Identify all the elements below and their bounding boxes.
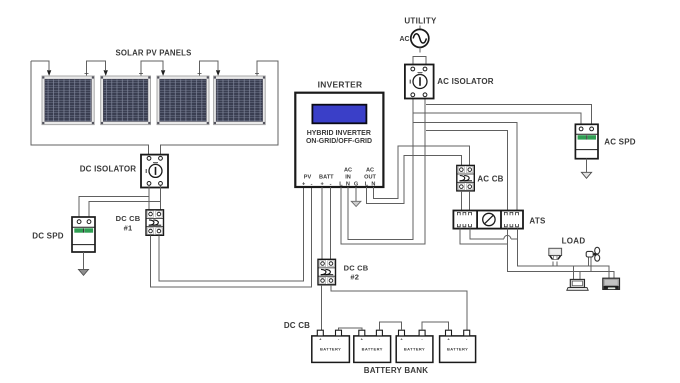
svg-text:AC: AC	[366, 168, 374, 174]
svg-text:AC ISOLATOR: AC ISOLATOR	[437, 77, 494, 86]
svg-text:DC CB: DC CB	[344, 263, 369, 272]
svg-text:BATTERY: BATTERY	[320, 347, 341, 352]
svg-text:ON-GRID/OFF-GRID: ON-GRID/OFF-GRID	[306, 138, 372, 145]
svg-text:UTILITY: UTILITY	[404, 16, 437, 25]
svg-text:BATTERY BANK: BATTERY BANK	[364, 366, 428, 375]
svg-text:#2: #2	[350, 273, 359, 282]
svg-text:BATTERY: BATTERY	[447, 347, 468, 352]
svg-text:#1: #1	[124, 223, 133, 232]
svg-text:G: G	[354, 181, 358, 187]
svg-text:DC ISOLATOR: DC ISOLATOR	[80, 164, 137, 173]
svg-text:-: -	[311, 181, 313, 187]
svg-text:BATTERY: BATTERY	[362, 347, 383, 352]
svg-text:INVERTER: INVERTER	[318, 79, 363, 89]
svg-text:AC: AC	[344, 168, 352, 174]
svg-text:-: -	[330, 181, 332, 187]
svg-text:PV: PV	[304, 175, 312, 181]
svg-text:DC CB: DC CB	[284, 321, 310, 330]
svg-text:L: L	[339, 181, 343, 187]
svg-text:HYBRID INVERTER: HYBRID INVERTER	[307, 130, 371, 137]
svg-text:DC CB: DC CB	[116, 214, 141, 223]
svg-text:IN: IN	[345, 175, 351, 181]
svg-text:AC SPD: AC SPD	[604, 137, 635, 146]
svg-text:L: L	[365, 181, 369, 187]
svg-text:AC CB: AC CB	[477, 174, 503, 183]
svg-text:ATS: ATS	[529, 216, 546, 225]
svg-text:AC: AC	[399, 36, 409, 43]
svg-text:LOAD: LOAD	[562, 236, 586, 245]
svg-text:SOLAR PV PANELS: SOLAR PV PANELS	[115, 49, 191, 58]
svg-text:BATT: BATT	[319, 175, 334, 181]
svg-text:DC SPD: DC SPD	[32, 231, 63, 240]
svg-text:N: N	[346, 181, 350, 187]
svg-text:OUT: OUT	[364, 175, 376, 181]
svg-text:N: N	[371, 181, 375, 187]
svg-text:BATTERY: BATTERY	[404, 347, 425, 352]
